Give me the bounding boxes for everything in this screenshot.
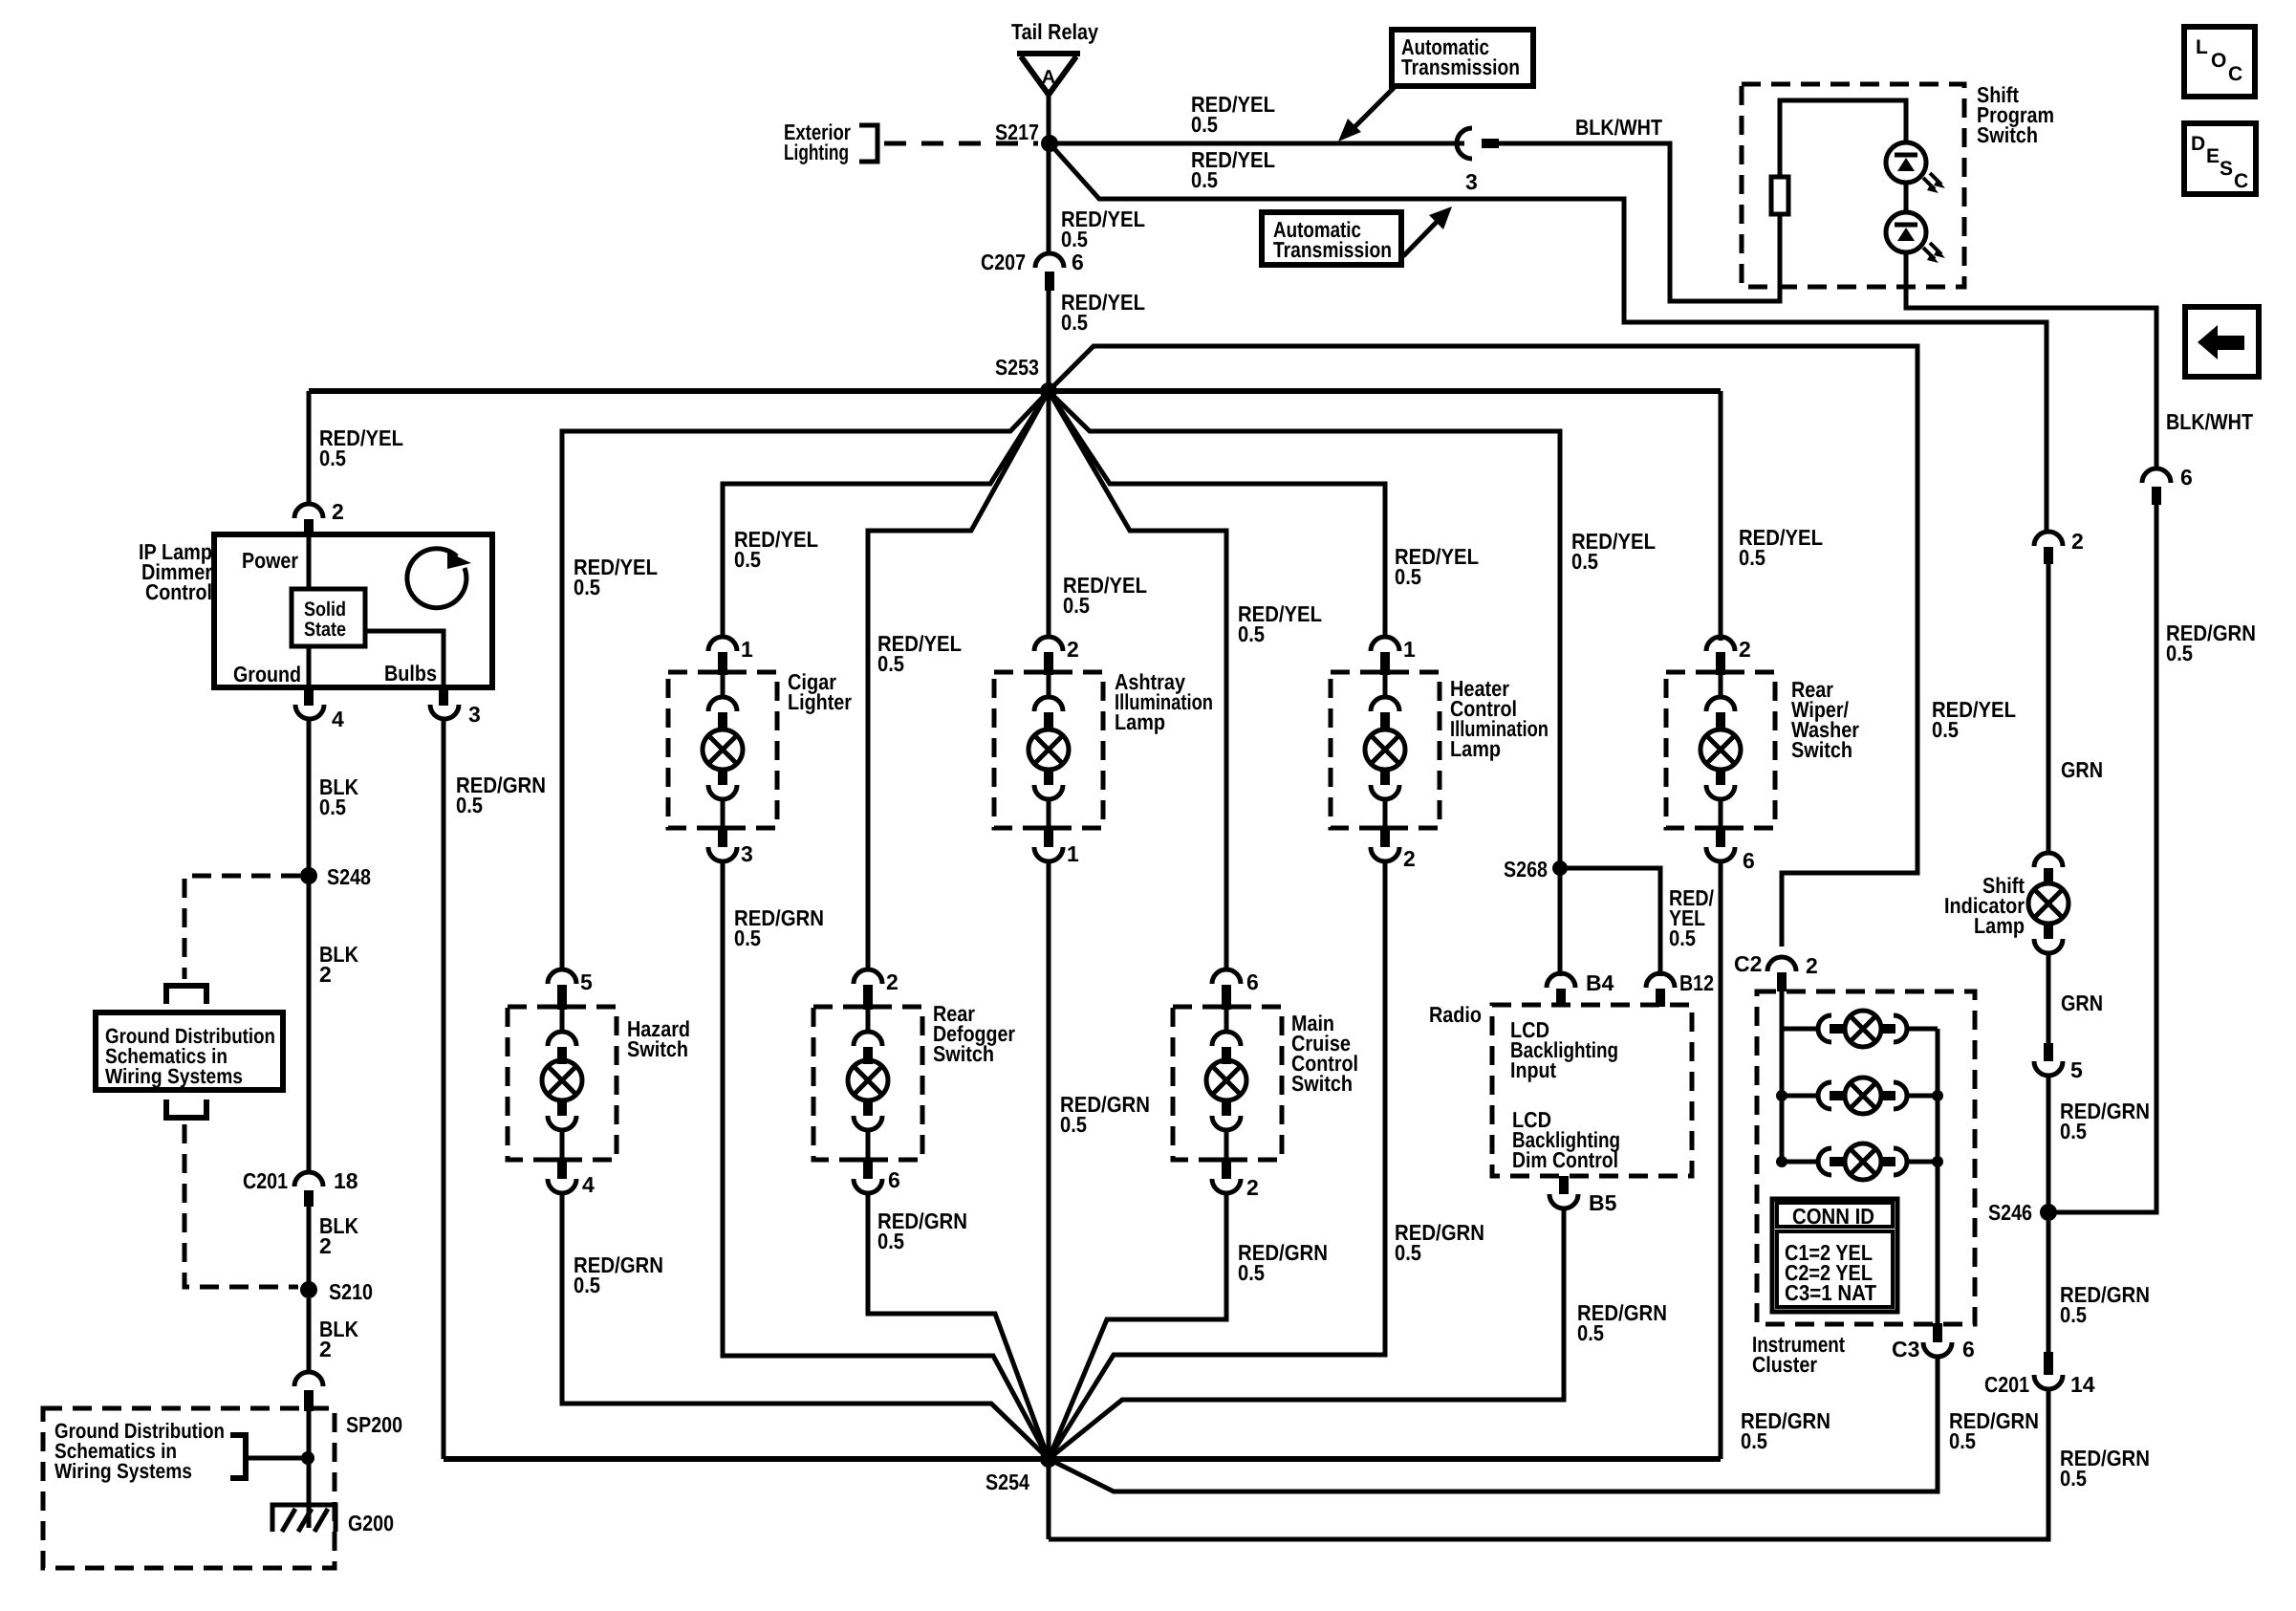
S253 fan left level3 to defogger bbox=[868, 391, 1049, 971]
svg-text:0.5: 0.5 bbox=[1949, 1428, 1976, 1453]
connector B5 bbox=[1549, 1176, 1617, 1215]
heater lamp bbox=[1365, 729, 1405, 770]
label RED/YEL 0.5 (B4 feed) bbox=[1571, 529, 1656, 574]
svg-text:0.5: 0.5 bbox=[1060, 1112, 1087, 1137]
cigar lighter dashed box bbox=[668, 672, 777, 828]
svg-text:SP200: SP200 bbox=[346, 1412, 402, 1437]
svg-text:0.5: 0.5 bbox=[2060, 1119, 2087, 1143]
wire solid state to ground pin bbox=[307, 646, 312, 687]
hazard internal top connector bbox=[548, 1010, 576, 1064]
label LCD Backlighting Dim Control bbox=[1512, 1107, 1620, 1172]
dimmer rotary symbol bbox=[407, 549, 471, 608]
svg-text:2: 2 bbox=[1806, 953, 1818, 978]
cigar lighter label bbox=[788, 669, 852, 714]
svg-text:0.5: 0.5 bbox=[1932, 717, 1959, 742]
node S246 bbox=[2040, 1204, 2057, 1221]
wire C207 to S253 bbox=[1047, 291, 1051, 391]
ashtray internal bottom connector bbox=[1034, 770, 1063, 828]
label RED/GRN 0.5 (ashtray out) bbox=[1060, 1092, 1150, 1137]
defogger box top tick bbox=[850, 1005, 886, 1010]
svg-text:C: C bbox=[2228, 63, 2242, 85]
svg-text:D: D bbox=[2191, 133, 2205, 155]
rear wiper internal top connector bbox=[1706, 675, 1735, 729]
wire bulbs pin down to S254 bus bbox=[442, 720, 446, 1459]
connector 1 (heater) bbox=[1371, 637, 1416, 675]
svg-text:Lamp: Lamp bbox=[1115, 709, 1165, 734]
instrument cluster label bbox=[1752, 1332, 1845, 1377]
svg-text:0.5: 0.5 bbox=[1395, 1240, 1421, 1265]
svg-text:C201: C201 bbox=[1984, 1372, 2029, 1397]
svg-text:S246: S246 bbox=[1988, 1200, 2032, 1225]
radio dashed box bbox=[1492, 1005, 1692, 1176]
S253 down to ashtray bbox=[1047, 391, 1051, 639]
svg-text:Control: Control bbox=[145, 579, 212, 604]
connector C3 pin 6 bbox=[1892, 1323, 1975, 1361]
label RED/GRN 0.5 (heater out) bbox=[1395, 1220, 1484, 1265]
wire resistor to top loop bbox=[1780, 100, 1906, 179]
wire S217 right (RED/YEL to connector 3) bbox=[1050, 142, 1464, 146]
svg-text:Radio: Radio bbox=[1429, 1002, 1482, 1027]
ground distribution dashed link (to S210) bbox=[184, 1124, 298, 1287]
svg-text:6: 6 bbox=[888, 1167, 900, 1192]
connector 5 (hazard) bbox=[548, 969, 593, 1010]
connector C201 pin 18 bbox=[243, 1168, 358, 1207]
svg-text:Switch: Switch bbox=[1977, 122, 2038, 147]
label RED/YEL 0.5 (rear wiper feed) bbox=[1739, 525, 1823, 570]
svg-text:Wiring Systems: Wiring Systems bbox=[105, 1064, 243, 1088]
rear wiper label bbox=[1791, 677, 1859, 762]
connector 4 (hazard out) bbox=[548, 1160, 595, 1197]
connector SP200 top bbox=[294, 1372, 323, 1411]
connector 6 (rear wiper out) bbox=[1706, 828, 1755, 873]
label RED/GRN 0.5 (bulbs out) bbox=[456, 773, 546, 817]
label RED/GRN 0.5 (hazard out) bbox=[574, 1252, 663, 1297]
wire cruise out to S254 bbox=[1049, 1193, 1226, 1459]
ground distribution reference box 1 bbox=[96, 1012, 283, 1090]
svg-text:Solid: Solid bbox=[304, 599, 346, 620]
main bus S253 bbox=[309, 388, 1721, 394]
instrument cluster dashed box bbox=[1757, 991, 1975, 1324]
svg-text:6: 6 bbox=[1246, 969, 1259, 994]
connector C2 pin 2 bbox=[1734, 951, 1818, 991]
IP lamp dimmer control label bbox=[139, 539, 212, 604]
hazard label bbox=[627, 1016, 690, 1061]
label RED/YEL 0.5 (IP feed) bbox=[319, 425, 403, 470]
CONN ID table bbox=[1772, 1199, 1897, 1312]
svg-text:Lamp: Lamp bbox=[1450, 736, 1501, 761]
label RED/YEL 0.5 (C2 feed) bbox=[1932, 697, 2016, 742]
svg-text:0.5: 0.5 bbox=[574, 575, 600, 599]
svg-text:3: 3 bbox=[468, 702, 481, 727]
svg-text:C3=1 NAT: C3=1 NAT bbox=[1785, 1280, 1876, 1305]
wire S246 down to C201 bbox=[2047, 1221, 2051, 1375]
ashtray box top tick bbox=[1030, 670, 1067, 675]
shift indicator lamp label bbox=[1944, 873, 2025, 938]
connector 3 (half circle) bbox=[1457, 128, 1499, 194]
svg-text:Wiring Systems: Wiring Systems bbox=[54, 1459, 192, 1483]
svg-text:0.5: 0.5 bbox=[1739, 545, 1765, 570]
wire LED2 down and right to BLK/WHT column bbox=[1906, 252, 2156, 469]
defogger label bbox=[933, 1001, 1015, 1066]
heater label bbox=[1450, 676, 1549, 761]
svg-text:O: O bbox=[2211, 50, 2226, 72]
ashtray box bottom tick bbox=[1030, 826, 1067, 831]
label RED/YEL 0.5 (cruise feed) bbox=[1238, 601, 1322, 646]
ashtray internal top connector bbox=[1034, 675, 1063, 729]
connector 2 (ashtray) bbox=[1034, 637, 1079, 675]
svg-text:18: 18 bbox=[334, 1168, 358, 1193]
svg-text:1: 1 bbox=[1067, 841, 1079, 866]
connector 2 (heater out) bbox=[1371, 828, 1416, 871]
svg-text:0.5: 0.5 bbox=[319, 795, 346, 819]
hazard box bottom tick bbox=[544, 1158, 580, 1163]
cruise dashed box bbox=[1173, 1007, 1282, 1160]
arrow from box 1 to wire bbox=[1338, 87, 1395, 142]
rear wiper lamp bbox=[1700, 729, 1741, 770]
ground distribution dashed link (S248 loop) bbox=[184, 876, 300, 979]
ashtray dashed box bbox=[994, 672, 1103, 828]
solid state box bbox=[292, 589, 365, 646]
svg-text:GRN: GRN bbox=[2061, 991, 2103, 1015]
wire connector 5 to S246 bbox=[2047, 1076, 2051, 1212]
heater internal top connector bbox=[1371, 675, 1399, 729]
svg-text:Cluster: Cluster bbox=[1752, 1352, 1817, 1377]
cigar internal top connector bbox=[708, 675, 737, 729]
svg-text:1: 1 bbox=[741, 637, 753, 662]
rear wiper box bottom tick bbox=[1702, 826, 1739, 831]
wire ground pin down bbox=[307, 720, 312, 1172]
svg-text:Switch: Switch bbox=[1791, 737, 1852, 762]
wire C201-18 to S210 bbox=[307, 1207, 312, 1290]
S253 fan right level2 to heater bbox=[1049, 391, 1385, 639]
heater internal bottom connector bbox=[1371, 770, 1399, 828]
label BLK 0.5 bbox=[319, 774, 358, 819]
connector 2 (rear wiper) bbox=[1706, 637, 1751, 675]
svg-text:0.5: 0.5 bbox=[1395, 564, 1421, 589]
svg-text:6: 6 bbox=[2180, 465, 2193, 490]
cluster lamp row 1 bbox=[1782, 1011, 1938, 1047]
svg-text:0.5: 0.5 bbox=[1061, 310, 1088, 335]
cigar box bottom tick bbox=[704, 826, 741, 831]
defogger dashed box bbox=[813, 1007, 922, 1160]
node S254 bbox=[1040, 1450, 1057, 1468]
svg-text:0.5: 0.5 bbox=[1741, 1428, 1767, 1453]
label RED/GRN 0.5 (rear wiper out) bbox=[1741, 1408, 1830, 1453]
wire defogger out to S254 bbox=[868, 1193, 1049, 1459]
svg-text:2: 2 bbox=[1403, 846, 1416, 871]
label RED/ YEL 0.5 (B12 wire) bbox=[1669, 885, 1715, 950]
svg-text:1: 1 bbox=[1403, 637, 1416, 662]
wire B5 to S254 bbox=[1049, 1208, 1564, 1459]
connector C207 pin 6 bbox=[981, 250, 1084, 291]
label BLK 2 bbox=[319, 942, 358, 987]
svg-text:E: E bbox=[2206, 145, 2220, 167]
connector 5 bbox=[2034, 1043, 2083, 1082]
svg-text:Switch: Switch bbox=[1291, 1071, 1353, 1096]
svg-text:C2: C2 bbox=[1734, 951, 1762, 976]
svg-text:Tail Relay: Tail Relay bbox=[1011, 19, 1098, 44]
wire lamp down bbox=[2047, 953, 2051, 1043]
svg-text:0.5: 0.5 bbox=[456, 793, 483, 817]
svg-text:6: 6 bbox=[1743, 848, 1755, 873]
wire heater out to S254 bbox=[1049, 861, 1385, 1459]
svg-text:6: 6 bbox=[1072, 250, 1084, 274]
svg-text:C207: C207 bbox=[981, 250, 1026, 274]
svg-text:2: 2 bbox=[886, 969, 899, 994]
bracket SP200 bbox=[230, 1435, 246, 1478]
wire solid state to bulbs pin bbox=[365, 631, 444, 687]
svg-text:B12: B12 bbox=[1679, 970, 1714, 995]
label RED/YEL 0.5 (cigar feed) bbox=[734, 527, 818, 572]
node S248 bbox=[300, 867, 317, 884]
svg-text:G200: G200 bbox=[348, 1511, 394, 1535]
label RED/YEL 0.5 wire1 bbox=[1191, 92, 1275, 137]
svg-text:Lamp: Lamp bbox=[1974, 913, 2025, 938]
rear wiper box top tick bbox=[1702, 670, 1739, 675]
svg-text:0.5: 0.5 bbox=[877, 651, 904, 676]
cigar box top tick bbox=[704, 670, 741, 675]
cruise internal bottom connector bbox=[1212, 1100, 1241, 1160]
label RED/YEL 0.5 (defogger feed) bbox=[877, 631, 962, 676]
hazard box top tick bbox=[544, 1005, 580, 1010]
wire power pin to solid state bbox=[307, 534, 312, 591]
exterior lighting label bbox=[784, 120, 851, 164]
wire right column down to S246 bbox=[2048, 503, 2156, 1212]
label RED/YEL 0.5 (ashtray feed) bbox=[1063, 573, 1147, 618]
connector 4 (ground) bbox=[295, 687, 344, 731]
svg-text:BLK/WHT: BLK/WHT bbox=[2166, 409, 2253, 434]
svg-text:0.5: 0.5 bbox=[2166, 641, 2193, 665]
left arrow box bbox=[2185, 307, 2259, 377]
defogger lamp bbox=[848, 1060, 888, 1100]
node S268 bbox=[1552, 860, 1568, 876]
shift program switch label bbox=[1977, 82, 2054, 147]
svg-text:S: S bbox=[2220, 158, 2233, 180]
svg-text:2: 2 bbox=[319, 1233, 332, 1258]
ground distribution reference text 2 bbox=[54, 1419, 225, 1483]
svg-text:CONN ID: CONN ID bbox=[1792, 1204, 1874, 1229]
svg-text:5: 5 bbox=[2070, 1057, 2083, 1082]
wire bracket to ground wire bbox=[246, 1456, 308, 1461]
svg-text:C201: C201 bbox=[243, 1168, 288, 1193]
tail relay triangle A bbox=[1017, 54, 1080, 95]
wire bus to IP connector 2 bbox=[307, 391, 312, 506]
svg-text:S210: S210 bbox=[329, 1279, 373, 1304]
svg-text:2: 2 bbox=[1246, 1175, 1259, 1200]
connector 3 (cigar out) bbox=[708, 828, 753, 866]
wire hazard out to S254 bbox=[562, 1193, 1049, 1459]
wire to ground bbox=[307, 1411, 312, 1528]
cluster left bus bbox=[1780, 991, 1785, 1162]
wire C3 to S254 bbox=[1049, 1357, 1938, 1491]
wire S254 down leg bbox=[1047, 1459, 1051, 1539]
svg-text:Ground: Ground bbox=[233, 662, 301, 686]
svg-text:4: 4 bbox=[332, 707, 344, 731]
junction dot SP200 bbox=[301, 1451, 314, 1465]
connector 2 (defogger) bbox=[854, 969, 899, 1010]
label RED/GRN 0.5 (C3 out) bbox=[1949, 1408, 2039, 1453]
svg-text:0.5: 0.5 bbox=[734, 925, 761, 950]
svg-text:0.5: 0.5 bbox=[1577, 1320, 1604, 1345]
automatic transmission box 2 bbox=[1262, 212, 1401, 265]
svg-text:2: 2 bbox=[1739, 637, 1751, 662]
S253 fan left level2 to cigar bbox=[723, 391, 1049, 639]
bus right end down to rear wiper bbox=[1719, 391, 1723, 641]
wire cigar out to S254 bbox=[723, 861, 1049, 1459]
svg-text:S268: S268 bbox=[1504, 857, 1548, 882]
svg-text:Bulbs: Bulbs bbox=[384, 661, 437, 686]
node S253 bbox=[1040, 382, 1057, 400]
connector 2 (IP power) bbox=[294, 499, 344, 535]
bracket top bbox=[166, 986, 206, 1004]
label RED/GRN 0.5 (B5 out) bbox=[1577, 1300, 1667, 1345]
svg-text:2: 2 bbox=[319, 962, 332, 987]
wire connector 3 to resistor leg bbox=[1499, 143, 1780, 301]
defogger internal top connector bbox=[854, 1010, 882, 1064]
rear wiper internal bottom connector bbox=[1706, 770, 1735, 828]
svg-text:BLK/WHT: BLK/WHT bbox=[1575, 115, 1662, 140]
label BLK 2 bbox=[319, 1317, 358, 1361]
hazard lamp bbox=[542, 1060, 582, 1100]
label RED/GRN 0.5 (defogger out) bbox=[877, 1208, 967, 1253]
S253 fan right level1 to B4 bbox=[1049, 391, 1560, 976]
svg-text:Transmission: Transmission bbox=[1401, 54, 1520, 79]
label RED/YEL 0.5 wire2 bbox=[1191, 147, 1275, 192]
svg-text:0.5: 0.5 bbox=[1238, 621, 1265, 646]
wire rear wiper out to S254 bus bbox=[1719, 861, 1723, 1459]
cluster right bus bbox=[1936, 1029, 1940, 1323]
svg-text:2: 2 bbox=[2071, 529, 2084, 554]
svg-text:3: 3 bbox=[741, 841, 753, 866]
cluster lamp row 2 bbox=[1776, 1078, 1943, 1114]
wire C201-14 down to S254 bottom run bbox=[1049, 1389, 2048, 1539]
label RED/GRN 0.5 bbox=[2060, 1282, 2150, 1327]
connector 1 (ashtray out) bbox=[1034, 828, 1079, 866]
cruise label bbox=[1291, 1011, 1358, 1096]
svg-text:GRN: GRN bbox=[2061, 757, 2103, 782]
defogger internal bottom connector bbox=[854, 1100, 882, 1160]
wire connector 2 down bbox=[2047, 564, 2051, 854]
connector 6 (BLK/WHT) bbox=[2142, 465, 2193, 505]
connector 1 (cigar) bbox=[708, 637, 753, 675]
connector 2 (cruise out) bbox=[1212, 1160, 1259, 1200]
connector 6 (cruise) bbox=[1212, 969, 1259, 1010]
svg-text:S217: S217 bbox=[995, 120, 1039, 144]
svg-text:4: 4 bbox=[582, 1172, 595, 1197]
cigar internal bottom connector bbox=[708, 770, 737, 828]
cruise box bottom tick bbox=[1208, 1158, 1245, 1163]
wire S217 diagonal to second branch bbox=[1050, 143, 2047, 532]
label RED/YEL 0.5 below S217 bbox=[1061, 207, 1145, 251]
heater box top tick bbox=[1367, 670, 1403, 675]
svg-text:0.5: 0.5 bbox=[1571, 549, 1598, 574]
label RED/GRN 0.5 right column bbox=[2166, 620, 2256, 665]
LOC box bbox=[2184, 27, 2255, 97]
ashtray lamp bbox=[1029, 729, 1069, 770]
heater dashed box bbox=[1331, 672, 1440, 828]
label RED/YEL 0.5 (hazard feed) bbox=[574, 555, 658, 599]
shift program switch dashed box bbox=[1742, 84, 1964, 287]
rear wiper dashed box bbox=[1666, 672, 1775, 828]
connector 2 (shift col) bbox=[2034, 529, 2084, 564]
wire S268 to B12 bbox=[1560, 868, 1660, 976]
wire S217 down to C207 bbox=[1047, 143, 1051, 253]
hazard internal bottom connector bbox=[548, 1100, 576, 1160]
label RED/GRN 0.5 (cruise out) bbox=[1238, 1240, 1328, 1285]
svg-text:Lighter: Lighter bbox=[788, 689, 852, 714]
SP200 dashed box bbox=[43, 1408, 335, 1568]
connector 3 (bulbs) bbox=[430, 687, 481, 727]
svg-text:0.5: 0.5 bbox=[877, 1229, 904, 1253]
cruise lamp bbox=[1206, 1060, 1246, 1100]
svg-text:0.5: 0.5 bbox=[734, 547, 761, 572]
IP lamp dimmer control box bbox=[214, 534, 492, 687]
svg-text:14: 14 bbox=[2070, 1372, 2095, 1397]
ashtray label bbox=[1115, 669, 1213, 734]
cruise box top tick bbox=[1208, 1005, 1245, 1010]
svg-text:0.5: 0.5 bbox=[1061, 227, 1088, 251]
connector B12 bbox=[1646, 970, 1714, 1007]
connector C201 pin 14 bbox=[1984, 1352, 2095, 1397]
svg-text:L: L bbox=[2196, 36, 2208, 58]
exterior lighting bracket bbox=[859, 125, 877, 162]
dashed wire exterior lighting to S217 bbox=[884, 142, 1038, 146]
automatic transmission box 1 bbox=[1392, 30, 1533, 86]
hazard dashed box bbox=[508, 1007, 617, 1160]
svg-text:Power: Power bbox=[242, 548, 298, 573]
svg-text:State: State bbox=[304, 619, 346, 641]
wire tail relay to S217 bbox=[1047, 93, 1051, 143]
connector B4 bbox=[1547, 970, 1614, 1007]
resistor (shift program switch) bbox=[1771, 177, 1788, 214]
DESC box bbox=[2184, 123, 2256, 194]
svg-text:Switch: Switch bbox=[627, 1036, 688, 1061]
svg-text:0.5: 0.5 bbox=[1669, 925, 1696, 950]
svg-text:Dim Control: Dim Control bbox=[1512, 1147, 1618, 1172]
arrow from box 2 to wire bbox=[1403, 207, 1452, 256]
S253 diagonal up right bbox=[1049, 346, 1917, 947]
svg-text:B5: B5 bbox=[1589, 1190, 1617, 1215]
S254 bus bbox=[444, 1456, 1721, 1462]
wire ashtray out to S254 bbox=[1047, 861, 1051, 1459]
svg-text:S254: S254 bbox=[986, 1469, 1029, 1494]
svg-text:2: 2 bbox=[319, 1337, 332, 1361]
svg-text:0.5: 0.5 bbox=[319, 446, 346, 470]
label RED/GRN 0.5 bbox=[2060, 1446, 2150, 1491]
S253 fan left level1 to hazard bbox=[562, 391, 1049, 971]
svg-text:S253: S253 bbox=[995, 355, 1039, 380]
svg-text:6: 6 bbox=[1962, 1337, 1975, 1361]
S253 fan right level3 to main cruise bbox=[1049, 391, 1226, 971]
svg-text:Lighting: Lighting bbox=[784, 140, 849, 164]
node S210 bbox=[300, 1281, 317, 1298]
svg-text:0.5: 0.5 bbox=[2060, 1302, 2087, 1327]
svg-text:0.5: 0.5 bbox=[1191, 112, 1218, 137]
label RED/GRN 0.5 bbox=[2060, 1099, 2150, 1143]
svg-text:Transmission: Transmission bbox=[1273, 237, 1392, 262]
LED 2 bbox=[1886, 212, 1945, 263]
svg-text:5: 5 bbox=[580, 969, 593, 994]
svg-text:Input: Input bbox=[1510, 1057, 1556, 1082]
shift indicator lamp bbox=[2028, 853, 2069, 953]
svg-text:S248: S248 bbox=[327, 864, 371, 889]
cluster lamp row 3 bbox=[1776, 1143, 1943, 1180]
svg-text:B4: B4 bbox=[1586, 970, 1614, 995]
svg-text:0.5: 0.5 bbox=[574, 1273, 600, 1297]
svg-text:Switch: Switch bbox=[933, 1041, 994, 1066]
label RED/YEL 0.5 (heater feed) bbox=[1395, 544, 1479, 589]
wire LED1 to LED2 bbox=[1904, 183, 1909, 212]
